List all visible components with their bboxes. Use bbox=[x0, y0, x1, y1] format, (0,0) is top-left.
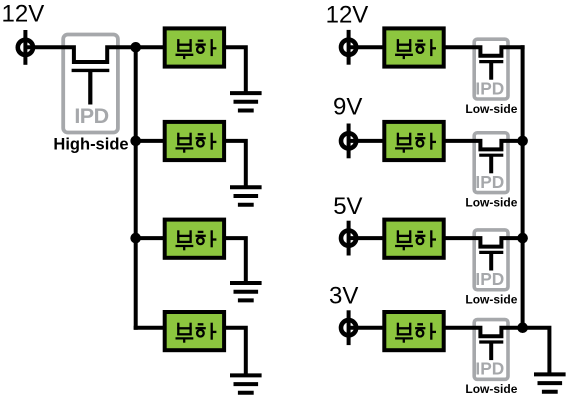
svg-text:Low-side: Low-side bbox=[465, 293, 517, 307]
svg-text:9V: 9V bbox=[333, 94, 362, 121]
svg-text:3V: 3V bbox=[329, 283, 358, 310]
svg-text:High-side: High-side bbox=[53, 135, 128, 153]
svg-text:5V: 5V bbox=[333, 193, 362, 220]
svg-text:IPD: IPD bbox=[475, 172, 504, 192]
svg-text:12V: 12V bbox=[326, 1, 369, 28]
svg-text:12V: 12V bbox=[2, 1, 45, 28]
svg-text:Low-side: Low-side bbox=[465, 195, 517, 209]
svg-text:IPD: IPD bbox=[74, 104, 108, 128]
svg-text:Low-side: Low-side bbox=[465, 382, 517, 396]
svg-text:IPD: IPD bbox=[475, 78, 504, 98]
svg-text:IPD: IPD bbox=[475, 359, 504, 379]
svg-text:Low-side: Low-side bbox=[465, 102, 517, 116]
svg-text:IPD: IPD bbox=[475, 269, 504, 289]
